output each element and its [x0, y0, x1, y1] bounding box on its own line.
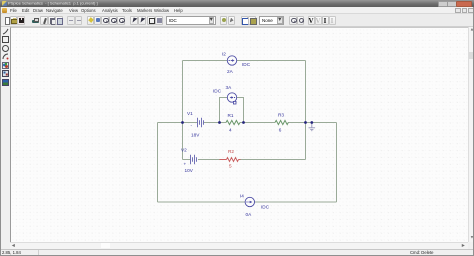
svg-text:4: 4 [229, 128, 232, 133]
left strip [0, 27, 10, 242]
svg-text:10V: 10V [185, 168, 194, 173]
svg-text:6: 6 [279, 128, 282, 133]
junction node at R1 right [242, 121, 245, 124]
wire V2-to-R2 segment [198, 159, 220, 161]
svg-text:V1: V1 [187, 111, 193, 116]
combo None [259, 16, 285, 25]
svg-text:I4: I4 [240, 194, 244, 199]
wire top loop horizontal [183, 60, 306, 62]
selection handle of I1 [233, 101, 236, 104]
svg-text:IDC: IDC [242, 62, 251, 67]
wire top loop left vertical [182, 61, 184, 123]
wire main bus left segment [158, 122, 198, 124]
junction node at top-loop right [304, 121, 307, 124]
junction node at V1 left [181, 121, 184, 124]
wire row2 right vertical [305, 123, 307, 160]
wire outer left vertical [157, 123, 159, 203]
toolbar buttons [2, 16, 10, 25]
svg-text:R2: R2 [228, 149, 234, 154]
svg-text:R1: R1 [228, 113, 234, 118]
svg-text:+: + [184, 162, 187, 167]
wire I1 loop left [220, 98, 228, 123]
battery V1 [198, 118, 204, 128]
junction node at R1 left [218, 121, 221, 124]
junction node at ground [310, 121, 313, 124]
wire bus R3-to-right segment [288, 122, 337, 124]
scrollbars [468, 27, 474, 242]
ground symbol [309, 123, 316, 132]
svg-text:-: - [191, 123, 193, 128]
wire bottom horizontal [158, 201, 337, 203]
battery V2 [191, 155, 197, 165]
toolbar [0, 14, 474, 27]
wire outer right vertical [336, 123, 338, 203]
wire bus R1-to-R3 segment [240, 122, 275, 124]
svg-text:IDC: IDC [261, 205, 270, 210]
current source I2 [227, 56, 236, 65]
resistor R3 [275, 120, 288, 124]
svg-text:IDC: IDC [213, 89, 222, 94]
outer frame [0, 7, 1, 256]
svg-text:2A: 2A [227, 69, 234, 74]
combo IDC [166, 16, 216, 25]
wire row2 left vertical [182, 123, 184, 160]
svg-text:18V: 18V [191, 133, 200, 138]
svg-text:R3: R3 [278, 113, 284, 118]
svg-text:I2: I2 [222, 52, 226, 57]
resistor R1 [226, 120, 240, 124]
title bar [0, 0, 474, 7]
wire row2 V2 segment [183, 159, 191, 161]
svg-text:3A: 3A [226, 85, 233, 90]
resistor R2 (selected, red) [220, 158, 241, 162]
svg-text:0A: 0A [246, 212, 253, 217]
wire R2-to-right segment [241, 159, 306, 161]
mdi child buttons [455, 8, 461, 13]
menu bar [0, 7, 474, 14]
wire top loop right vertical [305, 61, 307, 123]
svg-text:5: 5 [229, 164, 232, 169]
current source I4 [245, 197, 254, 206]
status bar [0, 249, 474, 256]
wire bus V1-to-R1 segment [204, 122, 226, 124]
svg-text:V2: V2 [181, 148, 187, 153]
current source I1 [227, 93, 236, 102]
wire I1 loop right [237, 98, 244, 123]
